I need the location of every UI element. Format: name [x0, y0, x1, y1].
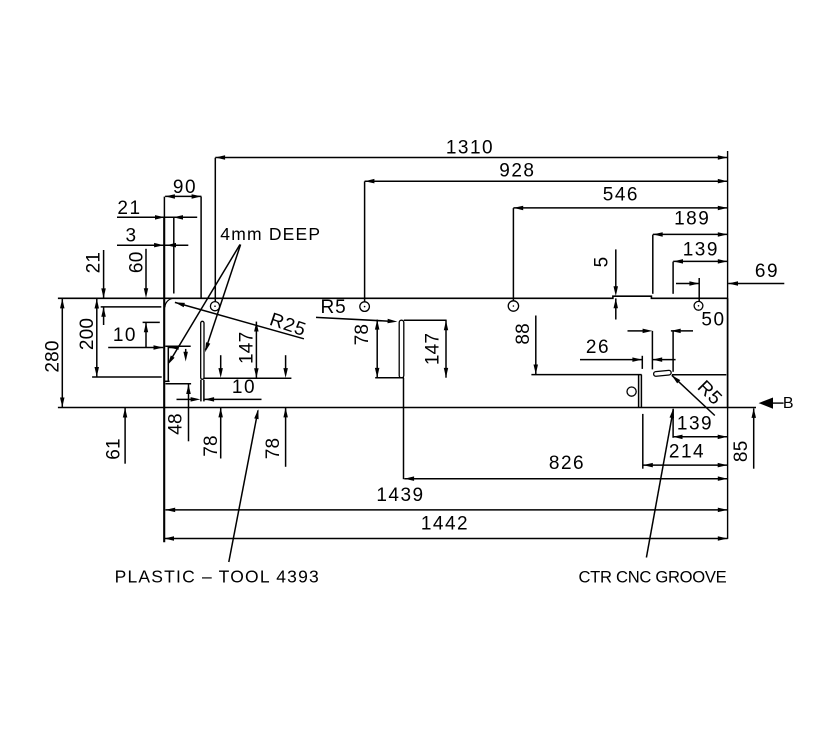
svg-text:61: 61 [103, 438, 124, 460]
svg-text:139: 139 [683, 240, 719, 261]
svg-text:88: 88 [513, 323, 534, 345]
svg-text:3: 3 [125, 226, 137, 247]
svg-text:B: B [783, 395, 794, 412]
svg-text:48: 48 [165, 413, 186, 435]
svg-text:78: 78 [352, 324, 373, 346]
svg-text:10: 10 [113, 325, 137, 346]
svg-text:1439: 1439 [376, 485, 424, 506]
svg-text:26: 26 [586, 337, 610, 358]
svg-text:10: 10 [232, 377, 256, 398]
svg-text:1310: 1310 [446, 137, 494, 158]
svg-text:CTR CNC GROOVE: CTR CNC GROOVE [579, 567, 727, 586]
svg-text:21: 21 [117, 198, 141, 219]
svg-text:4mm DEEP: 4mm DEEP [220, 224, 321, 244]
svg-text:50: 50 [701, 309, 725, 330]
svg-text:147: 147 [236, 332, 257, 364]
svg-text:R5: R5 [321, 297, 347, 318]
svg-text:90: 90 [173, 177, 197, 198]
svg-text:69: 69 [755, 261, 779, 282]
svg-text:200: 200 [77, 318, 98, 350]
svg-text:78: 78 [201, 435, 222, 457]
svg-text:85: 85 [731, 441, 752, 463]
svg-text:214: 214 [669, 441, 705, 462]
svg-text:928: 928 [499, 161, 535, 182]
svg-text:60: 60 [127, 252, 148, 274]
svg-text:PLASTIC – TOOL 4393: PLASTIC – TOOL 4393 [115, 567, 320, 587]
svg-text:147: 147 [423, 333, 444, 365]
svg-text:280: 280 [42, 340, 63, 372]
svg-text:189: 189 [674, 208, 710, 229]
svg-text:546: 546 [603, 184, 639, 205]
svg-text:5: 5 [591, 257, 612, 268]
svg-text:1442: 1442 [421, 514, 469, 535]
svg-text:78: 78 [263, 438, 284, 460]
svg-text:826: 826 [549, 453, 585, 474]
svg-text:21: 21 [84, 252, 105, 274]
svg-text:139: 139 [677, 413, 713, 434]
